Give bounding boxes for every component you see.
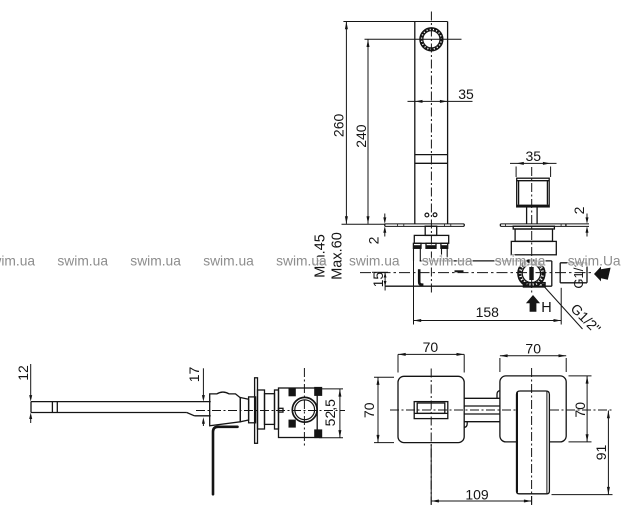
cartridge housing A [258, 390, 265, 429]
connecting bar [464, 391, 500, 428]
svg-text:35: 35 [458, 86, 474, 102]
dimension 70 (left square width) [398, 353, 464, 373]
svg-text:91: 91 [593, 445, 609, 461]
dimension texts [15, 86, 609, 502]
valve vertical centerline [531, 167, 533, 295]
svg-text:swim.ua: swim.ua [422, 254, 473, 269]
cartridge flange (side view) [275, 390, 279, 429]
column vertical centerline [430, 12, 432, 294]
svg-text:70: 70 [423, 339, 439, 355]
mounting feet [413, 243, 447, 248]
watermark row swim.ua [0, 254, 621, 269]
svg-text:swim.ua: swim.ua [0, 254, 35, 269]
set screw (side view) [279, 408, 284, 412]
wall plate (handle escutcheon) [500, 224, 589, 227]
dimension 240 [367, 39, 370, 224]
wall plate (spout escutcheon, front) [385, 224, 464, 227]
svg-text:17: 17 [186, 367, 202, 383]
svg-text:swim.ua: swim.ua [130, 254, 181, 269]
svg-text:70: 70 [361, 402, 377, 418]
dimension 70 (right square height) [569, 376, 592, 442]
svg-text:260: 260 [331, 114, 347, 138]
svg-text:swim.ua: swim.ua [495, 254, 546, 269]
mark on body centerline [455, 270, 464, 272]
handle wedge (side view) [210, 392, 241, 426]
dimension 91 [552, 411, 613, 495]
svg-text:70: 70 [572, 402, 588, 418]
dimension 35 (column width) [408, 100, 473, 103]
dimension 70 (right square width) [500, 354, 566, 372]
wall view: left rounded square [398, 376, 464, 442]
side view horizontal centerline [196, 410, 345, 412]
side view: dimension 12 [29, 364, 32, 423]
dimension 2 (left plate thickness) [383, 214, 386, 237]
wall view: right rounded square [500, 376, 566, 442]
valve knurled circle [518, 260, 545, 287]
handle cone [240, 398, 248, 422]
svg-text:2: 2 [366, 236, 382, 244]
dimension 2 (right plate thickness) [586, 214, 589, 237]
in-wall box (side view) [279, 388, 318, 438]
dimension 17 [202, 368, 205, 426]
spout outlet circle [420, 28, 443, 51]
svg-text:240: 240 [353, 124, 369, 148]
left square vertical centerline [430, 369, 432, 506]
dimension 158 [414, 261, 562, 325]
bracket under valve [523, 283, 545, 287]
spout cross-section [414, 402, 448, 419]
knob stem [527, 207, 538, 224]
svg-text:35: 35 [526, 148, 542, 164]
spout base neck under plate [425, 226, 437, 235]
lever handle (front) [517, 391, 550, 494]
handle base body [515, 229, 552, 241]
flow direction arrow (right edge) [594, 267, 611, 282]
svg-text:2: 2 [571, 206, 587, 214]
svg-text:158: 158 [476, 304, 500, 320]
svg-text:109: 109 [465, 486, 489, 502]
spout column front view [343, 22, 447, 224]
handle knob [517, 178, 550, 207]
spout (side view) [31, 402, 211, 416]
svg-text:swim.ua: swim.ua [57, 254, 108, 269]
svg-text:12: 12 [15, 365, 31, 381]
svg-text:swim.Ua: swim.Ua [568, 254, 621, 269]
side view valve circle [292, 397, 317, 422]
handle cylinder [249, 397, 256, 423]
wall view horizontal centerline [390, 409, 613, 411]
screw dots on column [425, 213, 429, 217]
in-wall body (front) [385, 261, 560, 286]
body horizontal centerline [360, 272, 592, 274]
dimension 260 [345, 22, 348, 224]
spout base box [414, 235, 448, 243]
extension line at plate level [342, 223, 385, 225]
dimension 52,5 [319, 389, 344, 438]
G1/2 leader line [541, 283, 583, 330]
handle knob view: dimension 35 [510, 162, 557, 177]
svg-text:15: 15 [370, 272, 386, 288]
svg-text:swim.ua: swim.ua [349, 254, 400, 269]
svg-text:52,5: 52,5 [322, 399, 338, 426]
handle base flange [513, 226, 554, 229]
svg-text:swim.ua: swim.ua [276, 254, 327, 269]
circle horizontal centerline [365, 38, 462, 40]
hot water arrow H [526, 295, 540, 312]
wall plate (side view, edge-on) [255, 378, 258, 444]
handle lever (side view) [213, 427, 238, 494]
dimension 70 (left square height) [374, 377, 394, 442]
cartridge housing B [265, 394, 275, 425]
supply hoses [414, 248, 448, 261]
clamp blocks [289, 387, 323, 438]
dimension 15 [372, 272, 388, 290]
G1/2 outlet stub [560, 263, 587, 283]
right square vertical centerline [531, 368, 533, 505]
svg-text:70: 70 [525, 340, 541, 356]
dimension 109 [431, 445, 531, 505]
svg-text:swim.ua: swim.ua [203, 254, 254, 269]
svg-text:H: H [541, 300, 551, 316]
svg-text:Max.60: Max.60 [330, 232, 346, 280]
handle base box [511, 241, 556, 254]
side view vertical centerline [303, 368, 305, 446]
